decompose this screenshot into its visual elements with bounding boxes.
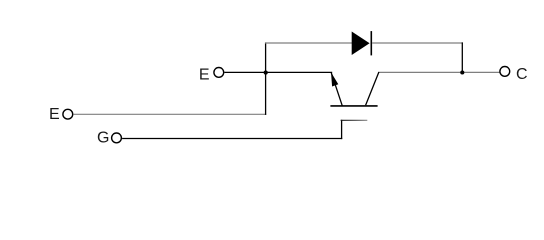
IGBT Q1 emitter line	[331, 73, 342, 106]
wire E1 horizontal (gray)	[73, 113, 266, 115]
IGBT Q1 collector line	[366, 72, 379, 105]
diode D1 cathode bar	[370, 31, 372, 55]
svg-text:E: E	[199, 66, 210, 83]
wire top rail right (gray, diode cathode to C branch)	[372, 42, 463, 44]
diode D1 anode triangle	[352, 32, 370, 56]
svg-text:E: E	[49, 106, 60, 123]
wire gate horizontal	[122, 138, 342, 140]
junction node right (collector rail / diode branch)	[460, 70, 464, 74]
junction node left (E rail / diode branch)	[264, 71, 268, 75]
wire gate riser vertical	[341, 120, 343, 139]
wire collector rail (gray, IGBT collector to C terminal)	[378, 71, 499, 73]
wire top rail left (gray, to diode anode)	[265, 42, 352, 44]
IGBT Q1 body bar	[330, 105, 377, 107]
IGBT Q1 gate bar	[341, 119, 368, 121]
svg-text:C: C	[516, 66, 528, 83]
wire C branch vertical (black)	[461, 42, 463, 73]
terminal E1	[63, 109, 73, 119]
IGBT Q1 emitter arrowhead	[331, 72, 338, 86]
terminal E2	[214, 68, 224, 78]
terminal G	[112, 133, 122, 143]
wire E1 riser vertical (black)	[265, 42, 267, 115]
svg-text:G: G	[97, 130, 109, 147]
terminal C	[500, 67, 510, 77]
wire emitter rail E2 to IGBT (black)	[224, 71, 332, 73]
